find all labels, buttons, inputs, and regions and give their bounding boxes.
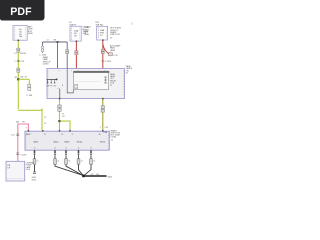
- fusible link label: [39, 54, 47, 56]
- connector pad labels: [37, 161, 96, 163]
- ground wire GW4: [79, 152, 84, 176]
- inline connector arrows GW3: [65, 152, 68, 156]
- svg-text:10A: 10A: [100, 29, 104, 32]
- svg-text:36: 36: [99, 134, 101, 136]
- connector C257 ticks on W7: [16, 153, 19, 155]
- connector pads on W1 upper: [17, 48, 20, 52]
- fuse box F1 name label: [28, 25, 34, 35]
- switch SW1 bar: [47, 78, 58, 80]
- svg-text:C13: C13: [105, 127, 108, 129]
- svg-text:14: 14: [14, 53, 16, 55]
- svg-text:306: 306: [20, 77, 23, 79]
- ground node G2 junction: [82, 175, 85, 178]
- svg-text:C401: C401: [26, 169, 31, 171]
- svg-text:12: 12: [34, 148, 36, 150]
- lamp glyph in U1a: [75, 84, 78, 88]
- svg-text:1: 1: [100, 127, 101, 129]
- ground G1 label: [32, 177, 37, 181]
- fuse F3 right label block 1: [110, 28, 122, 40]
- module U2 SJB junction box: [25, 131, 109, 150]
- ground bus wire: [84, 175, 107, 177]
- module U3 name label: [26, 162, 35, 171]
- svg-text:C5: C5: [93, 161, 95, 163]
- ground G1 ticks: [33, 172, 36, 174]
- ground wire GW5: [84, 152, 91, 176]
- wire W4 red from F3: [102, 40, 104, 69]
- wire W2 violet feed horizontal: [43, 41, 68, 43]
- connector pad GW2: [54, 159, 57, 164]
- svg-text:11: 11: [44, 123, 46, 125]
- wire W7 pink jumper: [18, 124, 29, 161]
- svg-text:57: 57: [44, 117, 46, 119]
- svg-text:9: 9: [59, 70, 60, 72]
- ground wire GW2: [55, 152, 83, 176]
- pin labels on U1 top edge: [59, 70, 105, 72]
- module U3 dashed bottom: [7, 178, 24, 180]
- svg-text:12: 12: [110, 85, 112, 87]
- wire W1 green from F1 down: [17, 40, 19, 79]
- svg-text:C2833: C2833: [43, 64, 49, 66]
- wire W2b down at right end: [66, 42, 68, 69]
- pins U2 top edge: [28, 130, 104, 132]
- switch SW1 position labels: [46, 85, 57, 87]
- branch wire W4a curved to stub connector: [103, 44, 109, 54]
- svg-text:C 2015: C 2015: [105, 61, 111, 63]
- wire W3 inside module: [75, 69, 77, 72]
- svg-text:JUNCTION: JUNCTION: [110, 34, 120, 36]
- stub connector C20 label: [113, 55, 118, 57]
- pin F1 bottom: [18, 40, 20, 41]
- connector pads on W3: [75, 51, 78, 55]
- connector pads on W1 lower: [17, 68, 20, 72]
- connector C2015 tick on W4: [101, 60, 104, 62]
- svg-text:OFF: OFF: [46, 85, 49, 87]
- svg-text:GD11: GD11: [33, 141, 39, 143]
- svg-text:13: 13: [54, 148, 56, 150]
- wire W2a down to switch: [57, 42, 59, 80]
- svg-text:GD15: GD15: [100, 141, 106, 143]
- fuse F3 right label block 2: [110, 44, 121, 51]
- inline connector arrows GW4: [77, 152, 80, 156]
- svg-text:15: 15: [78, 148, 80, 150]
- module U3 internal glyph: [8, 165, 11, 170]
- svg-text:7: 7: [30, 134, 31, 136]
- node switch wiper dot: [56, 79, 58, 81]
- splice S1 junction dot: [17, 78, 19, 80]
- svg-text:(SJB): (SJB): [84, 34, 89, 36]
- svg-text:16: 16: [90, 148, 92, 150]
- svg-text:7: 7: [71, 70, 72, 72]
- connector C149 label: [26, 95, 32, 97]
- svg-text:C1: C1: [37, 161, 39, 163]
- pin labels U2 bottom: [34, 148, 92, 150]
- svg-text:5 C257: 5 C257: [20, 154, 26, 156]
- module U1 name label: [43, 56, 51, 66]
- svg-text:C4: C4: [81, 161, 83, 163]
- wire W5 circuit label: [62, 113, 65, 117]
- fuse F3 header label: [96, 22, 105, 27]
- inline connector arrows GW5: [90, 152, 93, 156]
- wire W1a label: [20, 77, 28, 79]
- svg-text:G302: G302: [107, 176, 112, 178]
- splice S2 dot: [58, 120, 60, 122]
- svg-text:PDF: PDF: [10, 6, 32, 18]
- svg-text:(BJB): (BJB): [28, 33, 33, 35]
- module U2 name label: [110, 130, 120, 142]
- wire internal U1 return path: [67, 69, 73, 93]
- switch SW1 contact arrows: [47, 79, 56, 84]
- connector pads on W5: [58, 105, 61, 111]
- lamp module U1a inner block: [74, 71, 109, 89]
- fuse F1 value label: [19, 29, 22, 38]
- pin labels U2 top: [30, 134, 100, 136]
- pin U1 bottom right: [102, 98, 104, 99]
- dashed divider in U1a: [75, 81, 101, 83]
- svg-text:15A: 15A: [74, 29, 78, 32]
- fuse box F3 (SJB fuse 2): [97, 26, 108, 40]
- wire W5 green from U1 bottom: [59, 99, 61, 122]
- fuse F2 value label: [74, 29, 78, 37]
- wire W5 continues to SJB: [59, 122, 61, 130]
- svg-text:C2: C2: [57, 161, 59, 163]
- svg-text:C2280: C2280: [110, 137, 116, 139]
- inline connector arrows GW1: [33, 152, 36, 156]
- svg-text:12: 12: [111, 139, 113, 141]
- fuse box F2 name label: [69, 22, 76, 27]
- pin F3 bottom: [102, 39, 104, 40]
- svg-text:2: 2: [104, 70, 105, 72]
- ground wire GW3: [66, 152, 83, 176]
- stub connector pad C20: [109, 53, 113, 56]
- fusible link at W2 left end: [41, 42, 44, 53]
- module U1 headlamp switch box: [47, 69, 125, 99]
- svg-text:4: 4: [58, 88, 59, 90]
- bus bar top of U1a: [74, 71, 110, 73]
- fuse F2 feed label: [83, 26, 90, 36]
- wire W4 inside module: [102, 69, 104, 72]
- module U1 left edge pin dashes: [47, 71, 49, 97]
- wire W2 label: [47, 40, 57, 42]
- svg-text:SJB F32: SJB F32: [96, 25, 105, 27]
- svg-text:7: 7: [26, 127, 27, 129]
- svg-text:15: 15: [110, 38, 112, 40]
- connector C4 label: [11, 135, 15, 137]
- connector pads on W6: [101, 106, 104, 112]
- svg-text:GD12: GD12: [53, 141, 59, 143]
- fuse F3 value label: [100, 29, 104, 37]
- fuse F3 name label: [84, 26, 91, 36]
- pin U1 bottom left: [59, 98, 61, 99]
- svg-text:12: 12: [61, 134, 63, 136]
- svg-text:GD14: GD14: [77, 141, 83, 143]
- internal net labels U2: [33, 141, 106, 143]
- node T1 junction dot on W2: [57, 41, 59, 43]
- wire W1 color label: [14, 53, 26, 55]
- svg-text:1 C4: 1 C4: [11, 135, 15, 137]
- connector pad GW1: [33, 159, 36, 164]
- wire internal switch to bottom pin: [59, 89, 61, 99]
- svg-text:C3: C3: [68, 161, 70, 163]
- connector C4 ticks on W7: [16, 134, 19, 136]
- wire W6 olive from U1 bottom right: [102, 99, 104, 131]
- svg-text:14: 14: [65, 148, 67, 150]
- connector C15 labels: [14, 61, 25, 63]
- connector bracket on U1a right edge: [104, 77, 107, 83]
- branch wire W1a to connector stub: [18, 79, 29, 84]
- connector C15 ticks on W1: [17, 60, 20, 61]
- branch wire W5a right then down: [60, 121, 71, 130]
- fuse box F2 (SJB fuse): [70, 26, 81, 41]
- pin F2 bottom: [76, 41, 78, 42]
- svg-text:134: 134: [96, 174, 99, 176]
- switch SW1 pin label: [58, 85, 64, 90]
- svg-text:GD11: GD11: [32, 180, 37, 182]
- svg-text:4: 4: [78, 70, 79, 72]
- wire W1 continues down then right to SJB: [18, 80, 43, 130]
- connector pads on W4: [101, 49, 104, 53]
- module U3 lamp assembly box: [6, 161, 25, 181]
- svg-text:57: 57: [47, 40, 49, 42]
- PDF badge: [0, 0, 45, 21]
- connector pad GW3: [65, 159, 68, 164]
- svg-text:SJB F9: SJB F9: [69, 25, 76, 27]
- connector pad GW4: [77, 159, 80, 164]
- wire W1 circuit label: [44, 117, 46, 125]
- module U1 right note label: [126, 65, 133, 75]
- wire W7 label: [16, 122, 26, 124]
- svg-text:11: 11: [44, 134, 46, 136]
- connector pads on W2b: [66, 50, 69, 54]
- module U1 inner right label: [110, 73, 117, 87]
- inline connector arrows GW2: [54, 152, 57, 156]
- pins U2 bottom edge: [34, 150, 92, 152]
- connector pad GW5: [90, 159, 93, 164]
- wire W3 red from F2: [75, 41, 77, 68]
- svg-text:8: 8: [72, 134, 73, 136]
- fuse box F1 (top-left fuse block segment): [13, 25, 27, 40]
- inline connector halves on W1a: [28, 84, 31, 90]
- svg-text:306: 306: [16, 122, 19, 124]
- ground wire GW1: [34, 152, 36, 172]
- svg-text:GD13: GD13: [64, 141, 70, 143]
- svg-text:YE/GN: YE/GN: [20, 53, 27, 55]
- svg-text:LAMP: LAMP: [110, 49, 116, 52]
